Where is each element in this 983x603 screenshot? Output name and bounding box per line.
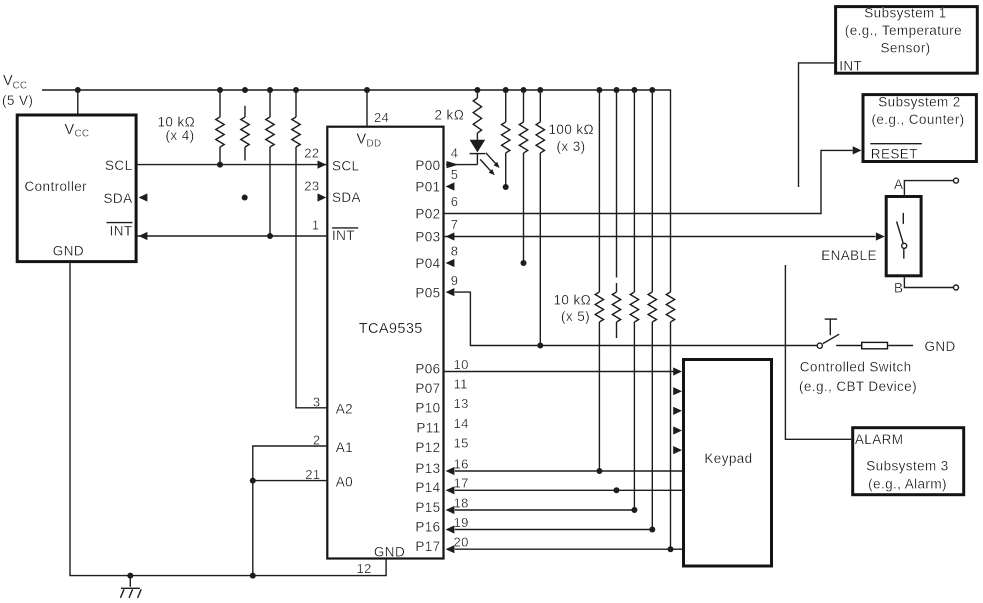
- svg-text:CC: CC: [75, 129, 90, 140]
- svg-text:(e.g., CBT Device): (e.g., CBT Device): [799, 379, 917, 394]
- svg-text:5: 5: [451, 167, 459, 182]
- svg-text:P05: P05: [415, 285, 440, 300]
- svg-text:19: 19: [454, 515, 469, 530]
- svg-text:21: 21: [305, 467, 320, 482]
- svg-text:(x 4): (x 4): [166, 128, 195, 143]
- svg-text:GND: GND: [53, 244, 84, 259]
- svg-text:22: 22: [304, 146, 319, 161]
- svg-text:(e.g., Counter): (e.g., Counter): [871, 112, 964, 127]
- svg-text:20: 20: [454, 535, 469, 550]
- svg-text:10: 10: [454, 357, 469, 372]
- svg-text:17: 17: [454, 476, 469, 491]
- svg-text:A0: A0: [336, 475, 353, 490]
- svg-text:SCL: SCL: [105, 158, 133, 173]
- svg-text:16: 16: [454, 456, 469, 471]
- svg-text:DD: DD: [367, 139, 382, 150]
- svg-text:11: 11: [454, 377, 468, 392]
- svg-text:Subsystem 3: Subsystem 3: [866, 459, 948, 474]
- svg-text:P15: P15: [415, 500, 440, 515]
- svg-text:15: 15: [454, 436, 469, 451]
- svg-text:P07: P07: [415, 381, 440, 396]
- svg-text:P06: P06: [415, 361, 440, 376]
- svg-text:24: 24: [374, 110, 389, 125]
- svg-text:100 kΩ: 100 kΩ: [549, 122, 595, 137]
- svg-text:RESET: RESET: [871, 147, 918, 162]
- svg-text:INT: INT: [839, 58, 862, 73]
- svg-text:(e.g., Temperature: (e.g., Temperature: [845, 23, 962, 38]
- svg-text:Controlled Switch: Controlled Switch: [800, 359, 912, 374]
- svg-text:(5 V): (5 V): [2, 93, 33, 108]
- svg-text:2: 2: [313, 433, 321, 448]
- svg-text:Subsystem 2: Subsystem 2: [878, 94, 960, 109]
- svg-text:SCL: SCL: [332, 158, 360, 173]
- svg-text:Keypad: Keypad: [704, 451, 752, 466]
- svg-text:P12: P12: [415, 440, 440, 455]
- svg-text:P10: P10: [415, 401, 440, 416]
- svg-text:10 kΩ: 10 kΩ: [554, 293, 592, 308]
- svg-text:18: 18: [454, 495, 469, 510]
- svg-text:14: 14: [454, 416, 469, 431]
- svg-text:INT: INT: [110, 223, 133, 238]
- svg-text:6: 6: [451, 194, 459, 209]
- svg-text:8: 8: [451, 244, 459, 259]
- svg-text:SDA: SDA: [332, 190, 361, 205]
- svg-text:TCA9535: TCA9535: [359, 321, 423, 337]
- svg-text:Sensor): Sensor): [880, 41, 930, 56]
- svg-text:A: A: [894, 177, 903, 192]
- svg-text:V: V: [357, 132, 367, 148]
- svg-text:Controller: Controller: [25, 179, 88, 194]
- svg-text:12: 12: [357, 561, 372, 576]
- svg-text:V: V: [65, 122, 75, 138]
- svg-text:CC: CC: [13, 81, 28, 92]
- svg-text:P14: P14: [415, 480, 440, 495]
- svg-text:2 kΩ: 2 kΩ: [435, 108, 465, 123]
- svg-text:P03: P03: [415, 230, 440, 245]
- svg-text:GND: GND: [374, 544, 405, 559]
- svg-text:P16: P16: [415, 519, 440, 534]
- svg-text:A1: A1: [336, 440, 353, 455]
- svg-text:1: 1: [312, 217, 320, 232]
- svg-text:23: 23: [304, 178, 319, 193]
- svg-text:P17: P17: [415, 539, 440, 554]
- svg-text:(x 3): (x 3): [557, 139, 586, 154]
- svg-text:ALARM: ALARM: [855, 432, 904, 447]
- svg-text:7: 7: [451, 217, 459, 232]
- svg-text:INT: INT: [332, 228, 355, 243]
- svg-text:13: 13: [454, 396, 469, 411]
- svg-text:9: 9: [451, 273, 459, 288]
- svg-text:Subsystem 1: Subsystem 1: [864, 6, 946, 21]
- svg-text:SDA: SDA: [104, 191, 133, 206]
- svg-text:P01: P01: [415, 180, 440, 195]
- svg-text:P04: P04: [415, 256, 440, 271]
- svg-text:(x 5): (x 5): [561, 309, 590, 324]
- svg-text:P11: P11: [416, 420, 440, 435]
- svg-text:ENABLE: ENABLE: [821, 248, 877, 263]
- svg-text:P13: P13: [415, 461, 440, 476]
- svg-text:4: 4: [451, 146, 459, 161]
- svg-text:V: V: [3, 73, 13, 89]
- svg-text:3: 3: [313, 394, 321, 409]
- svg-text:P02: P02: [415, 207, 440, 222]
- svg-text:B: B: [894, 281, 903, 296]
- svg-text:(e.g., Alarm): (e.g., Alarm): [868, 477, 947, 492]
- svg-text:A2: A2: [336, 402, 353, 417]
- svg-text:P00: P00: [415, 158, 440, 173]
- svg-text:GND: GND: [925, 339, 956, 354]
